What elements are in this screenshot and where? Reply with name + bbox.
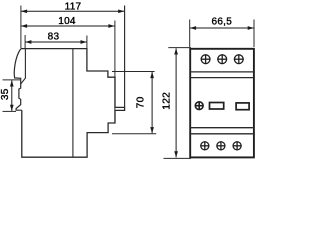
dimension 66,5 xyxy=(190,27,254,29)
svg-text:66,5: 66,5 xyxy=(211,16,232,27)
front view: lower divider lines xyxy=(190,127,254,129)
front view: middle window 2 xyxy=(236,103,249,110)
svg-text:117: 117 xyxy=(65,2,82,13)
svg-text:70: 70 xyxy=(135,96,146,108)
front view: upper divider lines xyxy=(190,71,254,73)
front view: middle window 1 xyxy=(210,103,224,110)
front view: top terminal screw 2 xyxy=(217,54,227,64)
svg-text:35: 35 xyxy=(0,88,11,100)
dimension 83 xyxy=(25,41,86,43)
dimension 122 xyxy=(175,48,177,157)
front view: top terminal screw 1 xyxy=(201,54,211,64)
front view: top terminal screw 3 xyxy=(234,54,244,64)
front view: bottom terminal screw 1 xyxy=(200,141,209,150)
side view: DIN-rail clip profile xyxy=(14,49,22,111)
svg-text:122: 122 xyxy=(162,92,173,110)
dimension 35 xyxy=(11,80,13,111)
front view: bottom terminal screw 3 xyxy=(233,141,242,150)
side view: body outline xyxy=(21,49,125,158)
dimension 104 xyxy=(21,25,115,27)
dimension 70 xyxy=(151,72,153,133)
dimension 117 xyxy=(21,10,125,12)
front view: bottom terminal screw 2 xyxy=(216,141,225,150)
side view: case back edge xyxy=(21,49,26,84)
front view: outer case xyxy=(190,49,254,158)
front view: middle small screw xyxy=(195,102,203,110)
svg-text:104: 104 xyxy=(58,16,76,27)
side view: internal vertical parting line xyxy=(72,49,74,158)
svg-text:83: 83 xyxy=(48,32,60,43)
